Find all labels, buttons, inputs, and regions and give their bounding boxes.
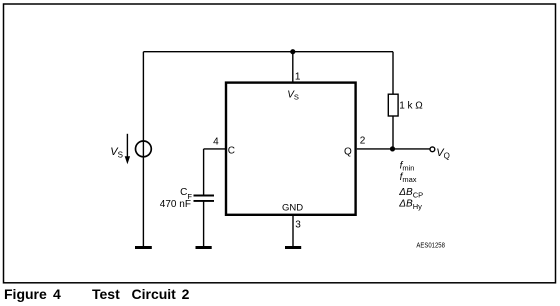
- svg-text:4: 4: [213, 136, 219, 147]
- svg-text:2: 2: [360, 136, 366, 147]
- ground (under pin 3): [285, 246, 301, 249]
- wire: capacitor top vertical: [203, 149, 205, 196]
- node: supply junction dot: [290, 49, 295, 54]
- wire: pin 1 vertical: [292, 52, 294, 83]
- ground (under source): [135, 246, 152, 249]
- IC U1 body: [226, 83, 356, 215]
- svg-text:GND: GND: [282, 202, 303, 213]
- svg-text:1: 1: [295, 71, 301, 82]
- svg-text:AES01258: AES01258: [416, 241, 445, 250]
- svg-text:Figure4: Figure4: [4, 286, 61, 302]
- wire: top supply rail: [143, 51, 393, 53]
- svg-text:C: C: [228, 146, 235, 157]
- svg-text:470 nF: 470 nF: [160, 199, 191, 210]
- wire: right vertical to resistor: [392, 52, 394, 94]
- capacitor CF plates: [194, 196, 215, 201]
- node: output junction dot: [390, 146, 395, 151]
- wire: pin 3 vertical: [292, 215, 294, 248]
- wire: left vertical (source branch): [142, 52, 144, 248]
- svg-text:TestCircuit2: TestCircuit2: [92, 286, 190, 302]
- output terminal circle: [430, 147, 435, 152]
- wire: pin 2 horizontal to output terminal: [357, 148, 430, 150]
- wire: resistor bottom to output node: [392, 116, 394, 149]
- wire: pin 4 horizontal: [204, 148, 226, 150]
- svg-text:Q: Q: [344, 146, 352, 157]
- wire: capacitor bottom vertical: [203, 201, 205, 248]
- ground (under capacitor): [196, 246, 212, 249]
- voltage source VS direction arrow: [125, 134, 130, 165]
- voltage source VS circle: [136, 141, 152, 157]
- svg-text:1 k Ω: 1 k Ω: [399, 101, 423, 112]
- resistor R1 1 kOhm body: [388, 94, 398, 116]
- svg-text:3: 3: [295, 219, 301, 230]
